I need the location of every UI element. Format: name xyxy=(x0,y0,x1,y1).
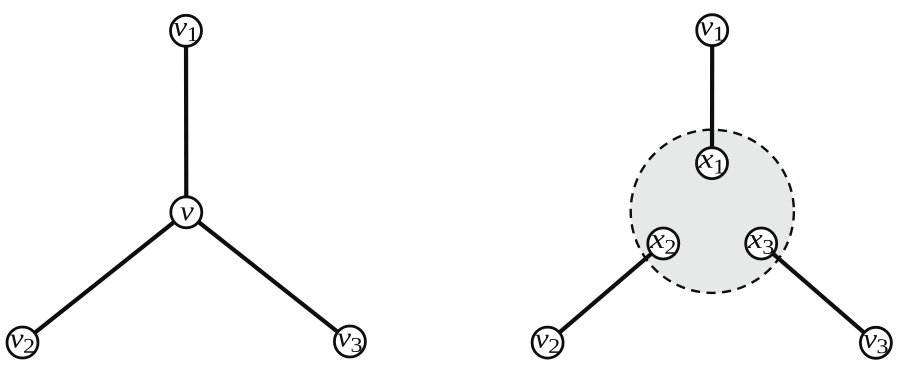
node v2 (left graph) xyxy=(7,327,38,358)
node v3 (right graph) xyxy=(860,327,891,358)
node v1 (left graph) xyxy=(171,15,202,46)
wire edge v-v2 (left graph) xyxy=(23,212,187,342)
node v1 (right graph) xyxy=(697,15,728,46)
node v (left graph center) xyxy=(171,197,202,228)
node v3 (left graph) xyxy=(334,326,365,357)
wire edge v-v3 (left graph) xyxy=(186,212,350,341)
node x3 (right graph) xyxy=(746,228,777,259)
wire edge v1-x1 (right graph) xyxy=(710,30,714,163)
dashed blow-up region circle enclosing x1,x2,x3 (right graph) xyxy=(631,130,794,293)
node x1 (right graph) xyxy=(697,148,728,179)
wire edge v-v1 (left graph) xyxy=(184,31,189,213)
node v2 (right graph) xyxy=(532,327,563,358)
node x2 (right graph) xyxy=(648,228,679,259)
wire edge x2-v2 (right graph) xyxy=(548,244,664,343)
wire edge x3-v3 (right graph) xyxy=(761,244,876,343)
